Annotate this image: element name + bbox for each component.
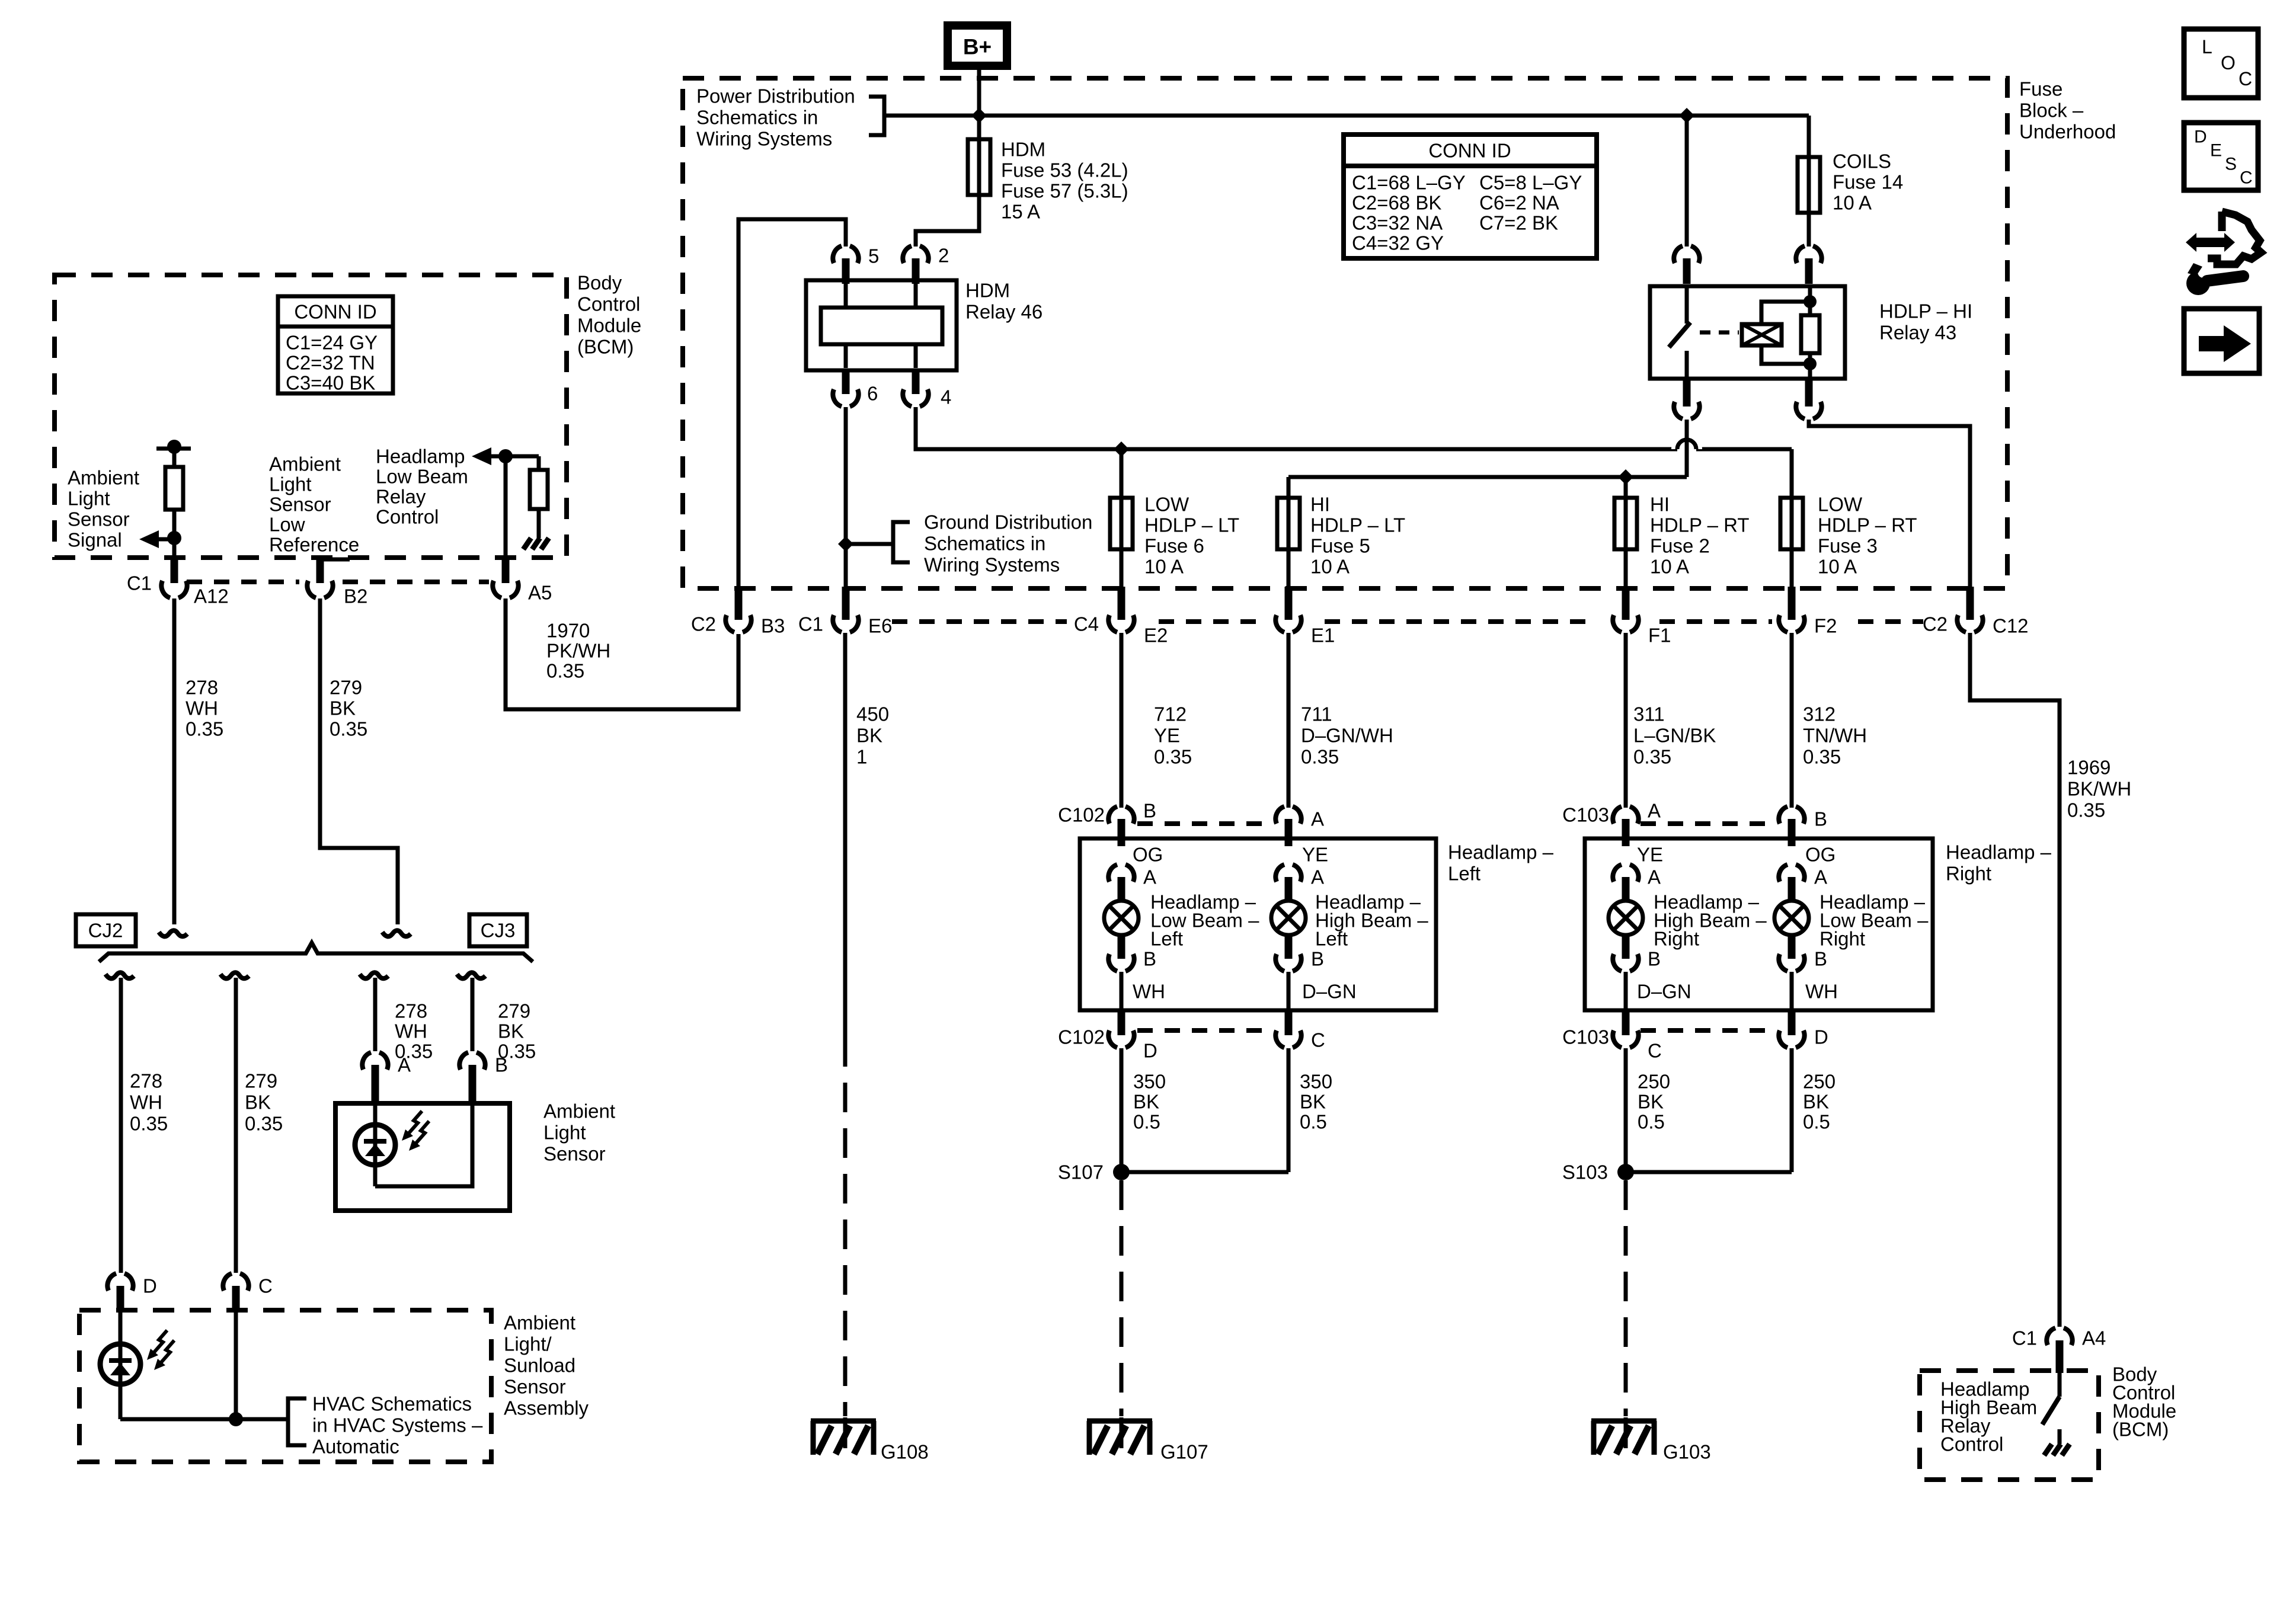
label A12 [194,585,229,607]
label E2 [1144,625,1168,646]
wire 278 WH to sunload D [119,978,123,1273]
label Headlamp Low Beam Left [1150,891,1259,950]
svg-text:Ambient: Ambient [504,1312,575,1334]
svg-text:279: 279 [245,1070,277,1092]
wire lamp high right down [1624,972,1628,1010]
wire fuse 6 to connector C4 E2 [1120,552,1124,588]
svg-text:OG: OG [1805,844,1835,866]
connector pin E1 [1275,587,1301,632]
svg-text:E2: E2 [1144,625,1168,646]
svg-text:E1: E1 [1311,625,1335,646]
svg-text:C102: C102 [1058,804,1105,826]
label Headlamp High Beam Relay Control [1940,1378,2037,1455]
svg-text:C1: C1 [127,572,152,594]
svg-text:0.5: 0.5 [1803,1111,1830,1133]
svg-text:D: D [143,1275,157,1297]
connector C2 pin C12 [1957,587,1982,632]
svg-text:350: 350 [1133,1071,1166,1093]
svg-text:TN/WH: TN/WH [1803,725,1867,747]
label wire 250 BK 0.5 right a [1638,1071,1670,1133]
svg-text:0.35: 0.35 [330,718,367,740]
label wire 278 WH 0.35 upper [186,677,223,740]
wire 1970 PK/WH from A5 to B3 [506,598,738,709]
svg-text:BK: BK [245,1092,271,1113]
svg-text:L: L [2202,36,2212,57]
svg-text:1969: 1969 [2067,757,2110,779]
wire 711 D-GN/WH from E1 [1287,633,1291,808]
wire 350 BK high left [1121,1048,1288,1172]
svg-text:311: 311 [1633,703,1665,725]
svg-text:B3: B3 [761,615,785,637]
label C102 pin B [1143,800,1156,822]
arrow headlamp low beam relay control [472,447,506,465]
wire relay 43 to connector C12 [1809,420,1970,588]
pin 5 connector of relay 46 [833,246,858,284]
connector lamp pin B low left [1108,935,1134,971]
node CJ2 junction box [76,914,136,946]
svg-text:A: A [1648,866,1661,888]
svg-text:WH: WH [186,697,218,719]
connector lamp pin A high right [1613,865,1638,902]
wire 350 BK low left [1120,1048,1124,1172]
label Body Control Module BCM right [2112,1363,2176,1441]
svg-text:CONN ID: CONN ID [294,301,376,323]
relay 43 internal resistor [1801,286,1819,379]
label D-GN right [1637,981,1691,1003]
svg-text:Ambient: Ambient [269,453,341,475]
fuse HI HDLP-RT Fuse 2 10A [1614,495,1637,552]
svg-text:Headlamp –: Headlamp – [1448,841,1554,863]
svg-text:Relay 43: Relay 43 [1879,322,1956,344]
svg-text:(BCM): (BCM) [577,336,634,358]
svg-text:OG: OG [1133,844,1163,866]
terminal crimp wire 279 lower right [457,972,485,978]
connector C102 pin B [1108,806,1134,846]
connector C1 pin A12 [161,558,187,598]
svg-text:Control: Control [577,293,640,315]
svg-text:250: 250 [1803,1071,1835,1093]
svg-text:0.35: 0.35 [1803,746,1841,768]
svg-text:A12: A12 [194,585,229,607]
wire bus to fuse 3 [1790,449,1794,495]
svg-text:C1: C1 [798,613,823,635]
wire resistor to A12 [172,510,177,583]
svg-text:HDLP – HI: HDLP – HI [1879,300,1972,322]
label Fuse Block - Underhood [2019,78,2116,143]
svg-text:15 A: 15 A [1001,201,1040,223]
label E1 [1311,625,1335,646]
svg-text:A: A [1143,866,1156,888]
svg-text:Fuse 2: Fuse 2 [1650,535,1710,557]
svg-text:Sensor: Sensor [504,1376,566,1398]
fuse HDM Fuse 53/57 15A [968,137,990,197]
label D-GN left [1302,981,1357,1003]
svg-text:O: O [2221,52,2236,73]
connector lamp pin A low left [1108,865,1134,902]
label Headlamp Left [1448,841,1554,885]
label YE [1302,844,1328,866]
svg-text:Assembly: Assembly [504,1397,589,1419]
wire sunload internal to HVAC [120,1313,288,1419]
label HVAC Schematics note [312,1393,483,1458]
label HDM Fuse 53 [1001,139,1128,223]
label wire 350 BK 0.5 left a [1133,1071,1166,1133]
connector face dashed line fuse block row [892,619,1923,624]
lamp Headlamp High Beam Left [1271,901,1306,935]
wire fuse 14 to relay 43 pin [1807,215,1811,247]
connector C4 pin E2 [1108,587,1134,632]
fuse COILS Fuse 14 10A [1798,155,1820,215]
node junction low beam bus to fuse 6 [1114,441,1129,457]
svg-text:L–GN/BK: L–GN/BK [1633,725,1716,747]
wire switch to ground [2058,1429,2062,1444]
wire 279 BK from B2 [320,598,398,924]
connector pin F1 [1613,587,1638,632]
label Ambient Light Sensor Signal [68,467,139,551]
wire relay 46 pin 4 low beam bus [916,407,1792,449]
wire dashed S107 to G107 [1120,1180,1124,1416]
svg-text:C: C [2239,68,2252,89]
label Ground Distribution note [924,511,1092,576]
label G103 [1663,1441,1711,1463]
module box Ambient Light/Sunload Sensor Assembly [79,1310,491,1462]
wire 1969 BK/WH from C12 [1970,633,2060,1327]
svg-text:CJ2: CJ2 [88,920,123,942]
label C12 [1993,615,2029,637]
svg-text:S: S [2225,155,2237,174]
pin 6 label [867,383,878,405]
fuse HI HDLP-LT Fuse 5 10A [1277,495,1300,552]
label wire 312 TN/WH 0.35 [1803,703,1867,768]
svg-text:LOW: LOW [1144,494,1189,516]
label wire 279 BK 0.35 lower left [245,1070,283,1135]
label C1 of E6 [798,613,823,635]
svg-text:WH: WH [395,1020,427,1042]
label C103 pin A [1648,800,1661,822]
label C4 of E2 [1074,613,1099,635]
label WH left [1133,981,1165,1003]
label C103 pin D [1814,1026,1828,1048]
connector lamp pin B high right [1613,935,1638,971]
terminal crimp wire 278 upper [159,930,187,936]
svg-text:HVAC Schematics: HVAC Schematics [312,1393,472,1415]
svg-text:Module: Module [577,315,641,337]
label C1 [127,572,152,594]
pin 6 connector of relay 46 [833,370,858,406]
svg-text:WH: WH [130,1092,162,1113]
svg-text:0.35: 0.35 [245,1113,283,1135]
svg-text:C103: C103 [1562,1026,1609,1048]
wire sensor internal loop [375,1106,472,1186]
svg-text:Signal: Signal [68,529,122,551]
label pin B high left [1311,948,1324,970]
label C103 pin C [1648,1040,1662,1062]
svg-text:Automatic: Automatic [312,1436,399,1458]
relay 43 top left pin connector [1674,246,1699,284]
svg-text:YE: YE [1154,725,1180,747]
label sunload pin C [258,1275,273,1297]
svg-text:0.35: 0.35 [1633,746,1671,768]
resistor BCM relay driver [530,470,548,509]
node junction high beam bus to fuse 2 [1618,469,1633,485]
connector C102 pin A [1275,806,1301,846]
wire dashed 450 BK to G108 [843,1037,848,1416]
label sensor pin B [495,1054,508,1076]
node junction B+ / fuse 53 [971,108,987,123]
svg-text:C2: C2 [1923,613,1948,635]
component box Headlamp Right [1585,838,1933,1010]
label COILS Fuse 14 [1833,151,1903,214]
label wire 711 D-GN/WH 0.35 [1301,703,1393,768]
svg-text:Underhood: Underhood [2019,121,2116,143]
svg-text:Headlamp –: Headlamp – [1946,841,2052,863]
svg-text:Ambient: Ambient [68,467,139,489]
module box Fuse Block - Underhood [683,78,2007,588]
svg-text:0.35: 0.35 [186,718,223,740]
svg-text:Right: Right [1654,928,1699,950]
svg-text:Control: Control [376,506,439,528]
svg-text:Light: Light [68,488,110,510]
connector sensor pin A [362,1052,388,1106]
svg-text:Wiring Systems: Wiring Systems [924,554,1060,576]
connector pin F2 [1779,587,1804,632]
ground G107 [1087,1417,1152,1455]
svg-text:HDLP – RT: HDLP – RT [1818,514,1917,536]
svg-text:Headlamp: Headlamp [376,446,465,468]
svg-text:1: 1 [856,746,867,768]
label Fuse 6 [1144,494,1239,578]
svg-text:B: B [495,1054,508,1076]
connector lamp pin B high left [1275,935,1301,971]
terminal crimp wire 278 lower right [360,972,388,978]
svg-text:BK/WH: BK/WH [2067,778,2131,800]
svg-text:Control: Control [1940,1433,2003,1455]
label C102 pin D [1143,1040,1157,1062]
label C102 pin A [1311,808,1324,830]
label Ambient Light Sensor Low Reference [269,453,359,556]
relay 43 bottom right pin connector [1796,379,1821,419]
svg-text:C1=68 L–GY: C1=68 L–GY [1352,172,1466,194]
svg-text:Block –: Block – [2019,100,2084,121]
wire main power bus [884,114,1809,118]
svg-text:711: 711 [1301,703,1332,725]
off-page reference bracket Power Distribution [869,97,884,135]
svg-text:D–GN: D–GN [1302,981,1357,1003]
label C2 of C12 [1923,613,1948,635]
module box BCM bottom right [1920,1371,2099,1480]
wire bus to fuse 6 [1120,449,1124,495]
svg-text:D: D [1143,1040,1157,1062]
connector face dashed line C103 bottom row [1641,1028,1776,1033]
svg-text:Fuse 53 (4.2L): Fuse 53 (4.2L) [1001,159,1128,181]
label wire 1969 BK/WH 0.35 [2067,757,2131,821]
label pin A low left [1143,866,1156,888]
svg-text:B: B [1814,948,1827,970]
svg-text:350: 350 [1300,1071,1332,1093]
wire crossover hop at low beam bus [1677,440,1696,449]
svg-text:450: 450 [856,703,889,725]
wire 250 BK high right [1624,1048,1628,1172]
svg-text:278: 278 [130,1070,162,1092]
label pin A high left [1311,866,1324,888]
svg-text:BK: BK [498,1020,524,1042]
svg-text:Schematics in: Schematics in [696,107,818,129]
terminal crimp wire 279 upper [382,930,411,936]
label HDM Relay 46 [965,280,1043,323]
connector pin A5 [493,558,518,598]
brace CJ junction [99,943,533,962]
ground BCM bottom right internal [2044,1444,2070,1455]
wire fuse 53 to relay 46 pin 2 [916,197,979,247]
connector C103 pin C [1613,1010,1638,1048]
wire 712 YE from E2 [1120,633,1124,808]
svg-text:279: 279 [330,677,362,699]
svg-text:C2=32 TN: C2=32 TN [286,352,375,374]
svg-text:Fuse 6: Fuse 6 [1144,535,1204,557]
svg-text:0.5: 0.5 [1300,1111,1327,1133]
wire B+ to main bus [977,66,981,116]
svg-text:B+: B+ [963,35,992,59]
svg-text:2: 2 [938,245,949,267]
svg-text:250: 250 [1638,1071,1670,1093]
relay 43 coil loop wires [1761,302,1810,364]
svg-text:WH: WH [1805,981,1838,1003]
svg-text:D–GN: D–GN [1637,981,1691,1003]
svg-text:D: D [2194,127,2207,147]
relay K43 HDLP-HI Relay 43 body [1650,286,1845,379]
wire dashed S103 to G103 [1624,1180,1628,1416]
svg-text:HI: HI [1650,494,1670,516]
photodiode sunload sensor [100,1313,174,1419]
label F2 [1814,615,1837,637]
label pin B high right [1648,948,1661,970]
svg-text:B: B [1814,808,1827,830]
svg-text:Reference: Reference [269,534,359,556]
node sunload internal junction [229,1412,243,1426]
wire 278 WH to sensor A [373,978,378,1051]
wire lamp low right down [1790,972,1794,1010]
label A4 [2082,1327,2106,1349]
svg-text:HI: HI [1310,494,1330,516]
label wire 1970 PK/WH 0.35 [546,620,610,682]
label wire 278 WH 0.35 lower left [130,1070,168,1135]
wire fuse 5 to connector E1 [1287,552,1291,588]
svg-text:COILS: COILS [1833,151,1891,172]
svg-text:CJ3: CJ3 [481,920,516,942]
node BCM internal junction top [167,440,181,454]
component box Ambient Light Sensor [335,1103,510,1211]
svg-text:C102: C102 [1058,1026,1105,1048]
svg-text:B2: B2 [344,585,367,607]
connector C102 pin D [1108,1010,1134,1048]
svg-text:D–GN/WH: D–GN/WH [1301,725,1393,747]
pin 4 connector of relay 46 [903,370,928,406]
svg-text:Sunload: Sunload [504,1355,575,1377]
svg-text:A: A [398,1054,411,1076]
svg-text:Relay 46: Relay 46 [965,301,1043,323]
svg-text:G107: G107 [1160,1441,1208,1463]
label wire 450 BK 1 [856,703,889,768]
pin 4 label [941,386,951,408]
label sunload pin D [143,1275,157,1297]
connector lamp pin B low right [1779,935,1804,971]
svg-text:E6: E6 [868,615,892,637]
label Ambient Light Sunload Sensor Assembly [504,1312,589,1419]
svg-text:G103: G103 [1663,1441,1711,1463]
off-page reference bracket HVAC [288,1398,306,1445]
svg-text:Wiring Systems: Wiring Systems [696,128,832,150]
svg-text:Low Beam: Low Beam [376,466,468,488]
svg-text:F2: F2 [1814,615,1837,637]
label Headlamp High Beam Right [1654,891,1767,950]
svg-text:A5: A5 [528,582,552,604]
connector lamp pin A low right [1779,865,1804,902]
svg-text:Light/: Light/ [504,1333,552,1355]
wire 312 TN/WH from F2 [1790,633,1794,808]
connector C1 pin E6 [833,587,858,632]
svg-text:A: A [1814,866,1827,888]
label OG right [1805,844,1835,866]
label S107 [1058,1161,1104,1183]
svg-text:312: 312 [1803,703,1835,725]
label Headlamp High Beam Left [1315,891,1428,950]
B+ battery feed symbol [948,25,1007,66]
label Fuse 3 [1818,494,1917,578]
svg-text:278: 278 [186,677,218,699]
label S103 [1562,1161,1608,1183]
svg-text:0.5: 0.5 [1638,1111,1665,1133]
svg-text:Body: Body [577,272,622,294]
label C1 bottom [2012,1327,2037,1349]
table CONN ID fuse block [1344,135,1597,258]
label G107 [1160,1441,1208,1463]
svg-text:C1: C1 [2012,1327,2037,1349]
svg-text:10 A: 10 A [1650,556,1689,578]
label C103 pin B [1814,808,1827,830]
svg-text:D: D [1814,1026,1828,1048]
svg-text:0.35: 0.35 [130,1113,168,1135]
svg-text:Light: Light [543,1122,586,1144]
label wire 279 BK 0.35 lower mid [498,1000,536,1062]
node CJ3 junction box [469,914,527,946]
svg-text:BK: BK [1300,1091,1326,1113]
svg-text:0.35: 0.35 [1154,746,1192,768]
svg-text:0.5: 0.5 [1133,1111,1160,1133]
ground G103 [1591,1417,1657,1455]
svg-text:C2: C2 [691,613,716,635]
svg-text:Right: Right [1946,863,1991,885]
connector C103 pin B [1779,806,1804,846]
wire bus to fuse 2 [1624,477,1628,495]
wire relay 46 pin 6 to connector E6 [844,407,848,588]
relay 43 top right pin connector [1796,246,1821,284]
label WH right [1805,981,1838,1003]
wire lamp high left to C102 C [1287,972,1291,1010]
table CONN ID BCM [278,296,393,394]
svg-text:B: B [1311,948,1324,970]
label E6 [868,615,892,637]
label pin B low right [1814,948,1827,970]
resistor BCM ambient light pull-up [165,467,183,510]
svg-text:E: E [2210,141,2222,161]
label B3 [761,615,785,637]
svg-text:BK: BK [330,697,356,719]
connector sunload pin D [107,1273,133,1313]
svg-text:Fuse 57 (5.3L): Fuse 57 (5.3L) [1001,180,1128,202]
svg-text:HDM: HDM [965,280,1010,302]
svg-text:279: 279 [498,1000,530,1022]
label wire 350 BK 0.5 left b [1300,1071,1332,1133]
